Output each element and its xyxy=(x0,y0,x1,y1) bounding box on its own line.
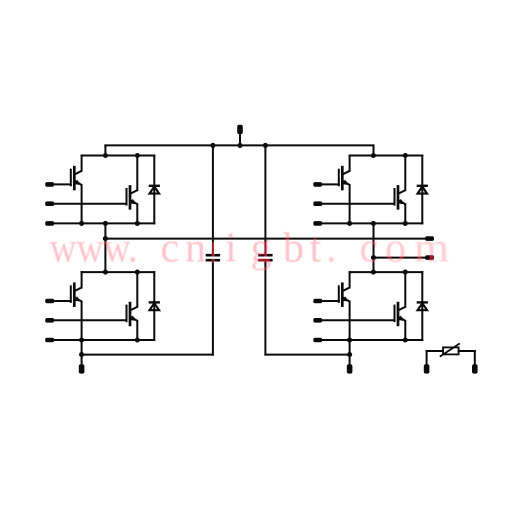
transistor Q8 (IGBT) xyxy=(395,303,406,325)
terminal upper-left gate1 pin xyxy=(45,182,54,187)
thermistor RT1 xyxy=(440,343,460,356)
terminal upper-left emitter pin xyxy=(45,221,54,226)
terminal upper-left gate2 pin xyxy=(45,201,54,206)
terminal lower-left emitter pin xyxy=(45,338,54,343)
node top bus / C1 xyxy=(210,143,215,148)
terminal upper-right gate2 pin xyxy=(313,201,322,206)
terminal U pin xyxy=(425,236,434,241)
terminal V pin xyxy=(425,255,434,260)
node N- right junction xyxy=(347,352,352,357)
wire Q3 collector lead xyxy=(349,156,351,171)
wire lower-right block collector (top) line xyxy=(350,271,423,273)
wire Q1 emitter lead xyxy=(81,185,83,223)
watermark www.cnigbt.com (crimson-over-lines layer) xyxy=(50,226,450,272)
node right leg midpoint / V wire xyxy=(371,255,376,260)
terminal T1 pin xyxy=(424,364,430,373)
wire left midpoint stub xyxy=(104,223,106,272)
wire right midpoint stub xyxy=(373,223,375,272)
diode D3 xyxy=(149,302,160,310)
wire Q2 emitter lead xyxy=(136,204,138,223)
node lower-left bottom line / emitter junction xyxy=(79,337,84,342)
wire Q1 collector lead xyxy=(81,156,83,171)
wire Q2 gate lead xyxy=(54,203,126,205)
wire Q3 emitter lead xyxy=(349,185,351,223)
terminal P (DC+) pin xyxy=(237,125,243,134)
wire lower-right emitter terminal lead xyxy=(322,339,349,341)
wire left top stub xyxy=(104,145,106,155)
terminal lower-left gate2 pin xyxy=(45,318,54,323)
wire thermistor left lead xyxy=(427,351,443,364)
wire Q2 collector lead xyxy=(136,156,138,191)
terminal upper-right emitter pin xyxy=(313,221,322,226)
node N- left junction xyxy=(79,352,84,357)
wire left emitter to N- bus xyxy=(81,340,83,355)
terminal upper-right gate1 pin xyxy=(313,182,322,187)
wire Q8 gate lead xyxy=(322,319,394,321)
node top bus / P terminal xyxy=(237,143,242,148)
transistor Q7 (IGBT) xyxy=(339,284,350,306)
node upper-left bottom line / emitter terminal xyxy=(79,221,84,226)
wire Q4 gate lead xyxy=(322,203,394,205)
wire Q8 collector lead xyxy=(404,272,406,307)
node lower-right bottom line / emitter junction xyxy=(347,337,352,342)
wire Q6 emitter lead xyxy=(136,321,138,340)
terminal N2 pin xyxy=(347,364,353,373)
diode D1 xyxy=(149,186,160,194)
wire C2 upper lead xyxy=(264,145,266,254)
wire AC output bus U (mid bus) xyxy=(105,238,428,240)
wire Q4 collector lead xyxy=(404,156,406,191)
wire Q5 collector lead xyxy=(81,272,83,287)
wire Q7 emitter lead xyxy=(349,302,351,340)
wire C1 lower lead xyxy=(212,261,214,354)
terminal N1 pin xyxy=(79,364,85,373)
capacitor C1 xyxy=(206,255,220,260)
node lower-right top line / stub xyxy=(371,270,376,275)
wire Q6 collector lead xyxy=(136,272,138,307)
wire Q6 gate lead xyxy=(54,319,126,321)
node upper-right bottom line / emitter terminal xyxy=(347,221,352,226)
transistor Q5 (IGBT) xyxy=(71,284,82,306)
wire Q7 gate lead xyxy=(322,300,339,302)
terminal P (DC+) pin stub wire xyxy=(239,134,241,145)
wire D4 diode branch xyxy=(421,272,423,340)
node top bus / C2 xyxy=(263,143,268,148)
wire D2 diode branch xyxy=(421,156,423,224)
wire Q5 emitter lead xyxy=(81,302,83,340)
wire lower-left block emitter (bottom) line xyxy=(82,339,155,341)
wire D1 diode branch xyxy=(153,156,155,224)
svg-text:m: m xyxy=(414,226,449,272)
transistor Q1 (IGBT) xyxy=(71,167,82,189)
wire N2 pin stub xyxy=(349,355,351,365)
wire lower-left block collector (top) line xyxy=(82,271,155,273)
wire C1 upper lead xyxy=(212,145,214,254)
wire AC output V xyxy=(374,257,429,259)
node upper-left bottom line / Q2 emitter xyxy=(135,221,140,226)
wire right top stub xyxy=(373,145,375,155)
node lower-left top line / stub xyxy=(103,270,108,275)
terminal T2 pin xyxy=(472,364,478,373)
diode D4 xyxy=(417,302,428,310)
wire Q1 gate lead xyxy=(54,183,71,185)
wire N- bus right xyxy=(265,354,349,356)
wire D3 diode branch xyxy=(153,272,155,340)
wire lower-right block emitter (bottom) line xyxy=(350,339,423,341)
wire Q8 emitter lead xyxy=(404,321,406,340)
watermark www.cnigbt.com (pale layer) xyxy=(50,226,450,272)
node mid bus / left leg midpoint xyxy=(103,236,108,241)
diode D2 xyxy=(417,186,428,194)
wire upper-right block emitter (bottom) line xyxy=(350,222,423,224)
terminal lower-right gate1 pin xyxy=(313,299,322,304)
wire upper-left block emitter (bottom) line xyxy=(82,222,155,224)
wire Q7 collector lead xyxy=(349,272,351,287)
wire C2 lower lead xyxy=(264,261,266,354)
terminal lower-right emitter pin xyxy=(313,338,322,343)
wire right emitter to N- bus xyxy=(349,340,351,355)
wire thermistor right lead xyxy=(459,351,475,364)
wire N- bus left xyxy=(82,354,213,356)
node upper-left top line / Q2 collector xyxy=(135,153,140,158)
terminal lower-left gate1 pin xyxy=(45,299,54,304)
node upper-left top line / stub xyxy=(103,153,108,158)
wire upper-left block collector (top) line xyxy=(82,155,155,157)
transistor Q4 (IGBT) xyxy=(395,187,406,209)
node lower-left bottom line / Q6 emitter xyxy=(135,337,140,342)
wire lower-left emitter terminal lead xyxy=(54,339,81,341)
terminal lower-right gate2 pin xyxy=(313,318,322,323)
transistor Q6 (IGBT) xyxy=(127,303,138,325)
node upper-right bottom line / Q4 emitter xyxy=(403,221,408,226)
wire Q4 emitter lead xyxy=(404,204,406,223)
wire DC+ top bus xyxy=(105,144,373,146)
node upper-right top line / Q4 collector xyxy=(403,153,408,158)
wire upper-right block collector (top) line xyxy=(350,155,423,157)
watermark crimson tint on C1 lead xyxy=(212,242,215,263)
wire Q5 gate lead xyxy=(54,300,71,302)
watermark crimson tint on C2 lead xyxy=(264,242,267,263)
wire Q3 gate lead xyxy=(322,183,339,185)
transistor Q3 (IGBT) xyxy=(339,167,350,189)
svg-text:www.: www. xyxy=(50,226,138,272)
wire N1 pin stub xyxy=(81,355,83,365)
transistor Q2 (IGBT) xyxy=(127,187,138,209)
node upper-right bottom line / stub xyxy=(371,221,376,226)
node lower-left top line / Q6 collector xyxy=(135,270,140,275)
wire upper-left emitter terminal lead xyxy=(54,222,81,224)
node upper-right top line / stub xyxy=(371,153,376,158)
node lower-right top line / Q8 collector xyxy=(403,270,408,275)
node upper-left bottom line / stub xyxy=(103,221,108,226)
node lower-right bottom line / Q8 emitter xyxy=(403,337,408,342)
capacitor C2 xyxy=(258,255,272,260)
wire upper-right emitter terminal lead xyxy=(322,222,349,224)
